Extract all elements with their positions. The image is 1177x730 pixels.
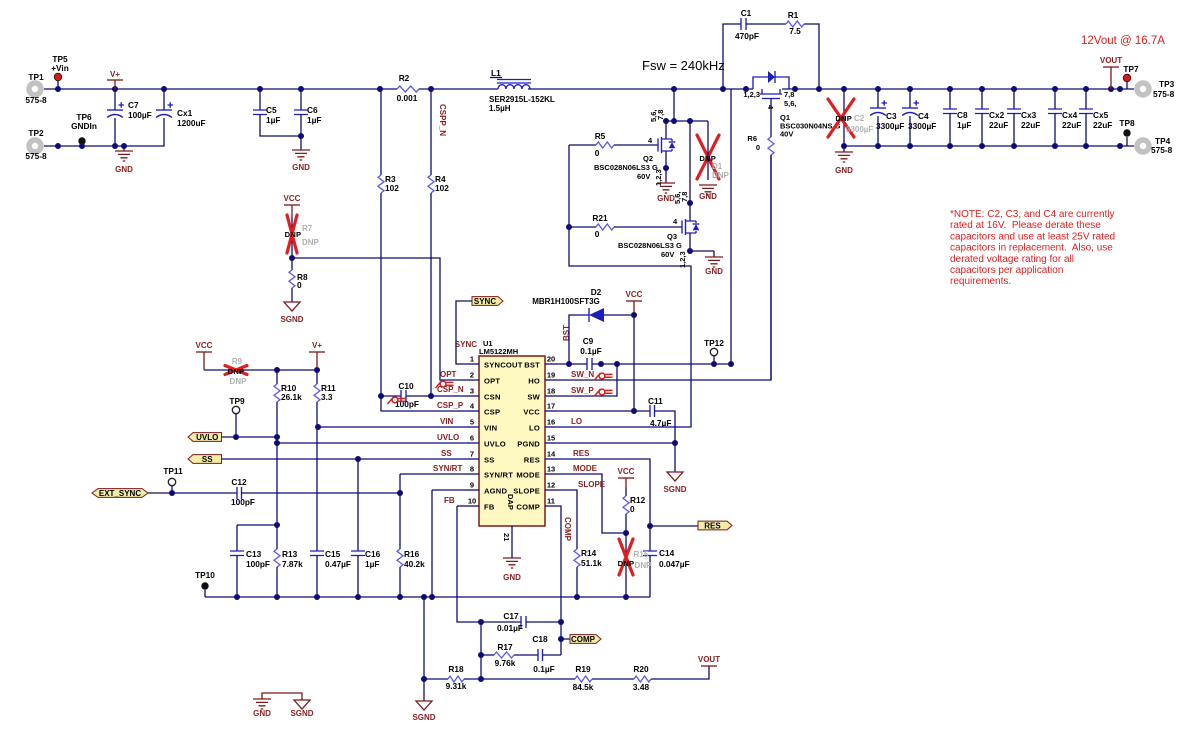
svg-text:R17: R17 <box>497 642 513 652</box>
svg-text:C12: C12 <box>231 477 247 487</box>
svg-text:C6: C6 <box>307 105 318 115</box>
ground SGND tie <box>294 700 310 709</box>
probe flag SW_N <box>595 373 601 380</box>
resistor R5 <box>569 144 596 146</box>
svg-text:575-8: 575-8 <box>1151 145 1173 155</box>
svg-text:requirements.: requirements. <box>950 276 1011 287</box>
svg-text:GND: GND <box>503 573 521 582</box>
svg-text:GND: GND <box>699 192 717 201</box>
svg-text:SGND: SGND <box>663 485 686 494</box>
svg-text:Q2: Q2 <box>643 154 653 163</box>
probe flag OPT <box>436 381 442 388</box>
svg-text:UVLO: UVLO <box>437 433 459 442</box>
svg-text:PGND: PGND <box>517 440 540 449</box>
svg-text:C7: C7 <box>128 100 139 110</box>
wire AGND row <box>432 489 467 491</box>
wire SGND column <box>423 597 425 701</box>
wire SYNCOUT <box>456 301 472 364</box>
svg-text:C16: C16 <box>365 549 381 559</box>
pin 8 SYN/RT <box>467 473 479 475</box>
svg-text:SYN/RT: SYN/RT <box>484 471 513 480</box>
svg-text:60V: 60V <box>661 250 674 259</box>
svg-text:FB: FB <box>484 503 495 512</box>
net flag UVLO <box>188 433 222 442</box>
capacitor C11 <box>650 405 655 417</box>
svg-text:SLOPE: SLOPE <box>513 487 540 496</box>
svg-text:7,8: 7,8 <box>656 110 665 120</box>
transistor Q2 BSC028N06LS3 <box>665 121 667 139</box>
svg-text:12: 12 <box>547 481 555 490</box>
test point TP8 <box>1123 129 1130 136</box>
svg-text:capacitors per application: capacitors per application <box>950 265 1063 276</box>
svg-text:BSC028N06LS3 G: BSC028N06LS3 G <box>618 241 682 250</box>
wire AGND bottom rail <box>205 596 650 598</box>
net flag SYNC <box>472 297 503 306</box>
pin 6 UVLO <box>467 442 479 444</box>
svg-text:SER2915L-152KL: SER2915L-152KL <box>489 95 555 104</box>
pin 1 SYNCOUT <box>467 363 479 365</box>
svg-text:capacitors and use at least 25: capacitors and use at least 25V rated <box>950 231 1115 242</box>
svg-text:Q3: Q3 <box>667 232 677 241</box>
svg-text:VCC: VCC <box>523 408 540 417</box>
capacitor C17 <box>481 621 521 623</box>
net flag RES <box>698 521 732 530</box>
wire BST row pin20 <box>557 363 587 365</box>
svg-text:R13: R13 <box>282 549 298 559</box>
svg-text:Cx2: Cx2 <box>989 110 1005 120</box>
svg-text:51.1k: 51.1k <box>581 558 602 568</box>
svg-text:Cx4: Cx4 <box>1062 110 1078 120</box>
svg-text:DNP: DNP <box>285 230 302 239</box>
resistor R11 <box>316 370 318 384</box>
resistor R15 DNP <box>625 533 627 597</box>
svg-text:TP9: TP9 <box>229 396 245 406</box>
resistor R19 <box>575 676 592 682</box>
svg-text:102: 102 <box>385 183 399 193</box>
svg-text:CSN: CSN <box>484 393 501 402</box>
svg-text:R2: R2 <box>399 73 410 83</box>
svg-text:9.76k: 9.76k <box>495 658 516 668</box>
resistor R20 <box>634 676 651 682</box>
svg-text:SGND: SGND <box>290 709 313 718</box>
wire SLOPE row pin12 <box>557 490 577 549</box>
svg-text:V+: V+ <box>110 70 120 79</box>
svg-text:575-8: 575-8 <box>25 151 47 161</box>
probe flag CSP_N <box>388 397 394 404</box>
pin 4 CSP <box>467 410 479 412</box>
svg-text:GND: GND <box>835 166 853 175</box>
capacitor Cx1 <box>156 109 172 111</box>
pin 3 CSN <box>467 395 479 397</box>
svg-text:*NOTE: C2, C3, and C4 are curr: *NOTE: C2, C3, and C4 are currently <box>950 209 1115 220</box>
svg-text:BST: BST <box>524 361 540 370</box>
svg-text:21: 21 <box>502 533 511 541</box>
svg-text:22uF: 22uF <box>1062 120 1081 130</box>
diode D2 MBR1H100SFT3G <box>569 315 589 364</box>
wire VOUT rail <box>782 88 1134 90</box>
pin 10 FB <box>467 505 479 507</box>
capacitor C2 DNP <box>843 89 845 146</box>
diode D1 DNP <box>707 121 709 135</box>
ground SGND at PGND <box>674 443 676 472</box>
test point TP3 <box>1137 83 1149 95</box>
svg-text:VCC: VCC <box>284 194 301 203</box>
svg-text:COMP: COMP <box>563 517 572 542</box>
pin 7 SS <box>467 458 479 460</box>
pin 14 RES <box>545 458 557 460</box>
capacitor C18 <box>538 649 543 661</box>
pin 16 LO <box>545 426 557 428</box>
capacitor C16 <box>357 459 359 551</box>
svg-text:15: 15 <box>547 434 555 443</box>
svg-text:0.047µF: 0.047µF <box>659 559 690 569</box>
svg-text:575-8: 575-8 <box>1153 89 1175 99</box>
svg-text:7,8: 7,8 <box>784 90 794 99</box>
svg-text:575-8: 575-8 <box>25 95 47 105</box>
capacitor C15 <box>316 427 318 551</box>
svg-text:DNP: DNP <box>228 367 245 376</box>
pin 15 PGND <box>545 442 557 444</box>
svg-text:Cx3: Cx3 <box>1021 110 1037 120</box>
svg-text:TP8: TP8 <box>1119 118 1135 128</box>
svg-text:C1: C1 <box>741 8 752 18</box>
svg-text:SW: SW <box>527 393 540 402</box>
svg-text:TP2: TP2 <box>28 128 44 138</box>
resistor R4 <box>430 89 432 175</box>
capacitor C4 <box>909 89 911 108</box>
svg-text:R14: R14 <box>581 548 597 558</box>
svg-text:rated at 16V. Please derate t: rated at 16V. Please derate these <box>950 220 1101 231</box>
svg-text:100pF: 100pF <box>231 497 255 507</box>
svg-text:470pF: 470pF <box>735 31 759 41</box>
wire output gnd rail <box>844 145 1134 147</box>
ground GND tie <box>253 699 271 709</box>
ground SGND bottom <box>416 701 432 710</box>
test point TP6 GNDIn <box>78 137 85 144</box>
svg-text:8: 8 <box>470 465 474 474</box>
svg-text:19: 19 <box>547 371 555 380</box>
svg-text:LO: LO <box>529 424 540 433</box>
svg-text:+Vin: +Vin <box>51 63 69 73</box>
resistor R1 snubber <box>786 21 804 27</box>
svg-text:RES: RES <box>524 456 540 465</box>
svg-text:MBR1H100SFT3G: MBR1H100SFT3G <box>532 297 600 306</box>
svg-text:L1: L1 <box>491 68 501 78</box>
svg-text:DNP: DNP <box>230 377 248 386</box>
capacitor C1 snubber <box>723 24 741 89</box>
svg-text:CSP_N: CSP_N <box>437 385 464 394</box>
svg-text:TP3: TP3 <box>1159 79 1175 89</box>
svg-text:VIN: VIN <box>440 417 454 426</box>
svg-text:C2: C2 <box>854 114 865 123</box>
svg-text:SYN/RT: SYN/RT <box>433 464 462 473</box>
wire FB row <box>457 505 467 507</box>
svg-text:LO: LO <box>571 417 582 426</box>
svg-text:LM5122MH: LM5122MH <box>479 347 518 356</box>
svg-text:capacitors in replacement. Al: capacitors in replacement. Also, use <box>950 243 1113 254</box>
wire SW row <box>592 363 731 365</box>
pin 9 AGND <box>467 489 479 491</box>
pin 12 SLOPE <box>545 489 557 491</box>
svg-text:18: 18 <box>547 387 555 396</box>
capacitor C8 <box>949 89 951 109</box>
pin 13 MODE <box>545 473 557 475</box>
svg-text:R20: R20 <box>633 664 649 674</box>
test point TP11 <box>168 478 175 485</box>
svg-text:VCC: VCC <box>196 341 213 350</box>
svg-text:40V: 40V <box>780 130 793 139</box>
svg-text:7,8: 7,8 <box>680 192 689 202</box>
wire VCC column <box>633 315 635 411</box>
svg-text:CSP: CSP <box>484 408 500 417</box>
svg-text:RES: RES <box>573 449 590 458</box>
svg-text:1µF: 1µF <box>957 120 971 130</box>
svg-text:0: 0 <box>756 143 760 152</box>
node RES junction <box>647 523 653 529</box>
ground GND input <box>123 146 125 151</box>
svg-text:R1: R1 <box>788 10 799 20</box>
svg-text:C3: C3 <box>886 111 897 121</box>
resistor R7 DNP <box>291 217 293 270</box>
svg-text:VOUT: VOUT <box>698 655 720 664</box>
svg-text:R5: R5 <box>595 131 606 141</box>
pin 11 COMP <box>545 505 557 507</box>
svg-text:SS: SS <box>202 455 213 464</box>
svg-text:0.47µF: 0.47µF <box>325 559 351 569</box>
svg-text:Fsw = 240kHz: Fsw = 240kHz <box>642 58 725 73</box>
svg-text:C10: C10 <box>398 381 414 391</box>
svg-text:40.2k: 40.2k <box>404 559 425 569</box>
svg-text:CSP_P: CSP_P <box>437 401 464 410</box>
svg-text:6: 6 <box>470 434 474 443</box>
svg-text:1µF: 1µF <box>365 559 379 569</box>
svg-text:0.01µF: 0.01µF <box>497 623 523 633</box>
pin 2 OPT <box>467 379 479 381</box>
svg-text:12Vout @ 16.7A: 12Vout @ 16.7A <box>1081 35 1165 47</box>
resistor R21 <box>569 226 596 228</box>
wire RES row pin14 <box>557 459 650 526</box>
svg-text:7.5: 7.5 <box>789 26 801 36</box>
node OPT junction <box>289 255 295 261</box>
svg-text:TP12: TP12 <box>704 338 724 348</box>
svg-text:14: 14 <box>547 450 556 459</box>
svg-text:SYNC: SYNC <box>455 340 477 349</box>
resistor R3 <box>380 89 382 175</box>
svg-text:R16: R16 <box>404 549 420 559</box>
svg-text:22uF: 22uF <box>989 120 1008 130</box>
svg-text:EXT_SYNC: EXT_SYNC <box>99 489 141 498</box>
svg-text:R15: R15 <box>634 550 649 559</box>
svg-text:Cx1: Cx1 <box>177 108 193 118</box>
wire SW to rail <box>730 89 732 364</box>
svg-text:C17: C17 <box>503 611 519 621</box>
svg-text:VIN: VIN <box>484 424 497 433</box>
resistor R8 <box>289 270 295 288</box>
svg-text:13: 13 <box>547 465 555 474</box>
svg-text:SGND: SGND <box>412 713 435 722</box>
svg-text:GND: GND <box>705 267 723 276</box>
capacitor C12 <box>237 487 242 499</box>
net flag EXT_SYNC <box>92 489 148 498</box>
resistor R13 <box>274 549 280 567</box>
capacitor C14 <box>649 526 651 551</box>
svg-text:CSPP_N: CSPP_N <box>438 104 447 136</box>
svg-text:C5: C5 <box>266 105 277 115</box>
svg-text:VCC: VCC <box>626 290 643 299</box>
svg-text:OPT: OPT <box>484 377 500 386</box>
node Q3 source <box>687 248 693 254</box>
capacitor C5 <box>259 89 261 110</box>
pin 17 VCC <box>545 410 557 412</box>
wire LO row pin16 <box>557 145 691 427</box>
ground GND under Q2 <box>665 168 667 183</box>
test point TP9 <box>232 406 239 413</box>
svg-text:SW_P: SW_P <box>571 386 594 395</box>
svg-text:2: 2 <box>470 371 474 380</box>
svg-text:0.001: 0.001 <box>397 93 418 103</box>
svg-text:R7: R7 <box>302 224 313 233</box>
svg-text:GND: GND <box>115 165 133 174</box>
svg-text:SYNC: SYNC <box>474 297 496 306</box>
ground GND under D1 <box>699 185 717 195</box>
svg-text:TP1: TP1 <box>28 72 44 82</box>
capacitor C10 <box>381 395 401 397</box>
net flag SS <box>188 455 222 464</box>
svg-text:3: 3 <box>470 387 474 396</box>
ground GND under C6 <box>292 150 310 160</box>
svg-text:SLOPE: SLOPE <box>578 480 606 489</box>
svg-text:R18: R18 <box>448 664 464 674</box>
svg-text:C9: C9 <box>583 336 594 346</box>
wire SS row <box>222 458 468 460</box>
svg-text:0: 0 <box>595 148 600 158</box>
svg-text:17: 17 <box>547 402 555 411</box>
pin 5 VIN <box>467 426 479 428</box>
svg-text:100pF: 100pF <box>246 559 270 569</box>
svg-text:11: 11 <box>547 497 555 506</box>
svg-text:DNP: DNP <box>835 114 852 123</box>
wire UVLO flag row <box>222 436 278 438</box>
svg-text:derated voltage rating for all: derated voltage rating for all <box>950 254 1074 265</box>
svg-text:MODE: MODE <box>573 464 598 473</box>
resistor R6 <box>768 137 774 155</box>
svg-text:22uF: 22uF <box>1093 120 1112 130</box>
wire CSN from R4 <box>431 395 467 397</box>
svg-text:AGND: AGND <box>484 487 507 496</box>
svg-text:R21: R21 <box>592 213 608 223</box>
svg-text:0.1µF: 0.1µF <box>533 664 554 674</box>
svg-text:DNP: DNP <box>712 171 730 180</box>
svg-text:SS: SS <box>441 449 452 458</box>
resistor R10 <box>276 370 278 384</box>
svg-text:Cx5: Cx5 <box>1093 110 1109 120</box>
wire SW to low-side drains <box>673 89 675 121</box>
svg-text:SYNCOUT: SYNCOUT <box>484 361 523 370</box>
capacitor Cx2 <box>981 89 983 109</box>
ground GND under DAP <box>503 558 521 568</box>
svg-text:84.5k: 84.5k <box>573 682 594 692</box>
wire ground tie bracket <box>262 693 302 700</box>
svg-text:R9: R9 <box>232 357 243 366</box>
ground GND under Q3 <box>690 250 714 252</box>
svg-text:TP7: TP7 <box>1123 64 1139 74</box>
inductor L1 <box>498 85 530 89</box>
svg-text:16: 16 <box>547 418 555 427</box>
capacitor C7 <box>114 89 116 110</box>
wire UVLO pin row <box>277 442 467 444</box>
node COMP flag junction <box>558 636 564 642</box>
power symbol VOUT at divider <box>701 665 717 667</box>
svg-text:SW_N: SW_N <box>571 370 594 379</box>
capacitor Cx3 <box>1013 89 1015 109</box>
capacitor C3 <box>877 89 879 108</box>
resistor R18 <box>424 678 448 680</box>
svg-text:9.31k: 9.31k <box>446 681 467 691</box>
test point TP5 +Vin <box>54 73 61 80</box>
capacitor C6 <box>300 89 302 110</box>
wire input gnd rail <box>44 118 164 146</box>
test point TP10 <box>201 582 208 589</box>
test point TP4 <box>1137 140 1149 152</box>
power symbol V+ <box>107 79 123 81</box>
op-amp U1 LM5122MH body <box>479 356 545 526</box>
transistor Q1 BSC030N04NS sync fet <box>743 86 749 92</box>
svg-text:3300µF: 3300µF <box>846 125 873 134</box>
svg-text:C11: C11 <box>648 396 663 406</box>
svg-text:60V: 60V <box>637 172 650 181</box>
svg-text:1µF: 1µF <box>266 115 280 125</box>
svg-text:C8: C8 <box>957 110 968 120</box>
svg-text:20: 20 <box>547 355 555 364</box>
test point TP1 <box>29 83 41 95</box>
capacitor Cx5 <box>1085 89 1087 109</box>
node Q2 source <box>663 165 669 171</box>
svg-text:C15: C15 <box>325 549 341 559</box>
svg-text:7.87k: 7.87k <box>282 559 303 569</box>
svg-text:C13: C13 <box>246 549 262 559</box>
svg-text:BSC028N06LS3 G: BSC028N06LS3 G <box>594 163 658 172</box>
ground GND under C2 <box>843 146 845 152</box>
resistor R12 <box>625 487 627 496</box>
svg-text:TP10: TP10 <box>195 570 215 580</box>
pin 20 BST <box>545 363 557 365</box>
svg-text:3.3: 3.3 <box>321 392 333 402</box>
pin 19 HO <box>545 379 557 381</box>
svg-text:R19: R19 <box>575 664 591 674</box>
svg-text:UVLO: UVLO <box>484 440 506 449</box>
svg-text:7: 7 <box>470 450 474 459</box>
test point TP2 <box>29 140 41 152</box>
svg-text:DNP: DNP <box>635 561 653 570</box>
svg-text:GND: GND <box>253 709 271 718</box>
svg-text:C4: C4 <box>918 111 929 121</box>
wire CSP_P branch <box>381 396 467 411</box>
capacitor C9 <box>587 358 592 370</box>
svg-text:GNDIn: GNDIn <box>71 121 97 131</box>
svg-text:102: 102 <box>435 183 449 193</box>
svg-text:1.5µH: 1.5µH <box>489 104 511 113</box>
net flag COMP <box>570 635 601 644</box>
ground SGND under R8 <box>284 302 300 311</box>
svg-text:0: 0 <box>630 504 635 514</box>
wire MODE row pin13 <box>557 474 626 533</box>
svg-text:GND: GND <box>292 163 310 172</box>
svg-text:1: 1 <box>470 355 474 364</box>
svg-text:RES: RES <box>704 521 721 530</box>
svg-text:HO: HO <box>528 377 540 386</box>
wire PGND row pin15 <box>557 442 675 444</box>
svg-text:VCC: VCC <box>618 467 635 476</box>
